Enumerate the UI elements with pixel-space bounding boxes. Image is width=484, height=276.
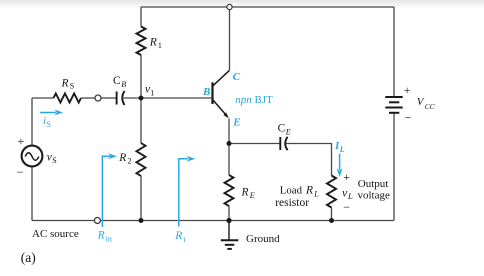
label VCC plus [404,83,411,97]
wire CE right to RL [286,144,332,176]
capacitor CB [117,91,125,105]
wire RL to bottom rail [331,208,333,221]
wire top rail [141,6,394,8]
wire R1 column top [140,7,142,27]
svg-text:R: R [174,230,182,242]
wire RE to bottom rail [228,206,230,221]
svg-text:S: S [52,156,56,165]
wire emitter to RE [228,144,230,176]
svg-text:C: C [113,75,121,87]
wire emitter column [228,119,230,144]
wire base [141,97,212,99]
wire bottom rail [32,220,394,222]
transistor Q1 npn [213,70,230,118]
svg-text:C: C [233,71,241,83]
junction node RL bottom [329,218,334,223]
label CB [113,75,126,89]
svg-text:2: 2 [128,157,132,166]
svg-text:npn BJT: npn BJT [235,94,273,106]
wire CE left [229,143,280,145]
label R2 [118,152,131,166]
svg-text:S: S [70,81,74,90]
ground [221,221,239,249]
label npn BJT [235,94,273,106]
label vs minus [17,165,24,179]
wire AC source bottom [31,166,33,220]
label RS [61,78,75,91]
wire collector column [229,7,231,70]
resistor R1 [137,27,146,56]
terminal circle bottom [94,218,100,224]
label iS [43,115,51,129]
svg-text:E: E [249,191,255,200]
arrow Ri [179,156,195,227]
label Output voltage [358,178,390,201]
svg-text:+: + [404,83,411,97]
svg-text:AC source: AC source [32,228,79,240]
svg-text:R: R [149,36,157,48]
terminal circle input [95,95,101,101]
svg-text:Ground: Ground [246,233,280,245]
arrow iS [40,110,63,116]
AC source vs [22,146,43,167]
svg-text:i: i [184,235,186,244]
label vL [342,186,353,201]
svg-text:−: − [405,110,412,124]
label Rin [97,229,112,243]
svg-text:E: E [232,117,240,129]
svg-text:resistor: resistor [275,197,309,209]
svg-text:R: R [241,186,249,198]
wire R1 to node v1 [140,55,142,98]
svg-text:R: R [97,229,105,241]
label vs plus [18,134,25,148]
svg-text:B: B [121,80,126,89]
terminal circle top [227,4,232,9]
arrow Rin [102,153,116,227]
label Ground [246,233,280,245]
resistor RE [225,175,234,206]
wire R2 to bottom rail [140,176,142,221]
svg-text:CC: CC [425,102,436,111]
svg-text:R: R [305,185,313,197]
svg-text:1: 1 [158,41,162,50]
svg-text:1: 1 [150,88,154,97]
junction node R2 bottom [139,218,144,223]
svg-text:E: E [285,127,291,136]
resistor RL [327,176,336,208]
svg-text:B: B [202,86,210,98]
wire CB to node v1 [122,97,141,99]
wire battery bottom [393,114,395,221]
label RE [241,186,255,200]
arrow IL [337,154,343,178]
wire source to RS [32,97,54,99]
junction node ground [226,218,231,223]
svg-text:voltage: voltage [358,189,390,201]
svg-text:−: − [343,200,350,214]
label VCC minus [405,110,412,124]
label B [202,86,210,98]
label Ri [174,230,185,244]
svg-text:R: R [118,152,126,164]
label CE [278,123,291,137]
label C [233,71,241,83]
junction node emitter-CE [227,141,232,146]
svg-text:−: − [17,165,24,179]
svg-text:+: + [343,170,350,184]
label vL plus [343,170,350,184]
label AC source [32,228,79,240]
svg-text:L: L [339,145,345,154]
label VCC [417,96,436,111]
wire AC source top [31,98,33,146]
label E [232,117,240,129]
svg-text:in: in [106,235,112,244]
label IL [334,140,345,154]
label Load RL resistor [275,185,319,210]
resistor RS [54,94,82,103]
svg-text:C: C [278,123,286,135]
resistor R2 [137,143,146,176]
label vs [47,151,57,165]
wire R2 node v1 down [140,98,142,143]
wire RS to terminal [81,97,95,99]
svg-text:L: L [313,190,319,199]
svg-text:V: V [417,96,425,108]
svg-text:Load: Load [280,185,303,197]
wire battery top [393,7,395,96]
label v1 [145,83,154,97]
capacitor CE [280,137,287,150]
label R1 [149,36,162,50]
svg-text:+: + [18,134,25,148]
label (a) [21,250,36,265]
svg-text:Output: Output [358,178,389,190]
battery VCC [385,97,402,113]
label vL minus [343,200,350,214]
junction node v1 [139,96,144,101]
svg-text:S: S [47,120,51,129]
svg-text:R: R [61,78,69,90]
svg-text:(a): (a) [21,250,36,265]
wire terminal to CB [101,97,116,99]
